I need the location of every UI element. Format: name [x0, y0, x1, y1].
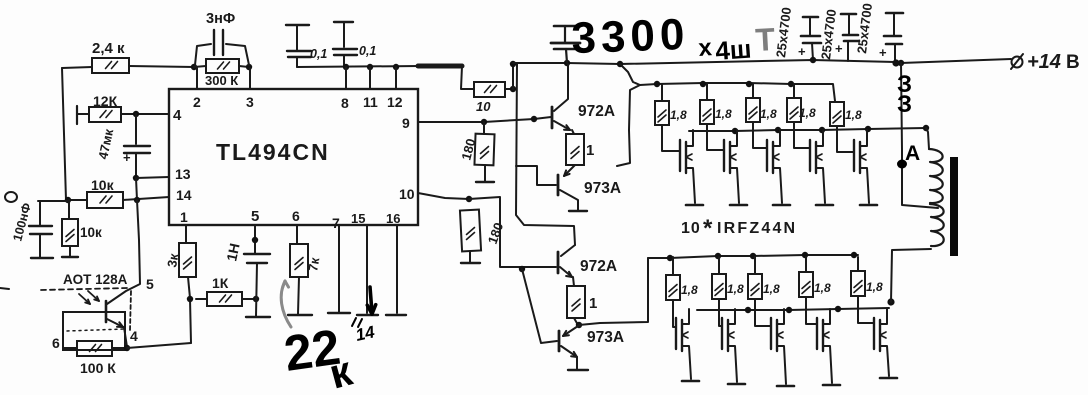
svg-text:IRFZ44N: IRFZ44N [717, 220, 797, 237]
svg-text:10: 10 [476, 99, 491, 114]
svg-text:1: 1 [180, 209, 188, 225]
svg-text:1,8: 1,8 [727, 282, 744, 296]
svg-text:8: 8 [341, 95, 349, 111]
svg-text:13: 13 [175, 166, 191, 182]
svg-text:972А: 972А [578, 103, 615, 120]
svg-text:А: А [905, 142, 920, 165]
svg-text:1,8: 1,8 [763, 282, 780, 296]
svg-text:100 К: 100 К [80, 360, 116, 376]
svg-text:В: В [1066, 52, 1080, 73]
svg-text:25х4700: 25х4700 [773, 6, 794, 58]
svg-text:1,8: 1,8 [670, 108, 687, 122]
svg-text:14: 14 [176, 187, 192, 203]
svg-text:1,8: 1,8 [866, 280, 883, 294]
svg-text:300 К: 300 К [205, 73, 238, 88]
svg-text:+: + [123, 150, 131, 165]
svg-text:25х4700: 25х4700 [854, 2, 875, 54]
svg-text:5: 5 [251, 208, 259, 225]
svg-text:1: 1 [586, 142, 594, 159]
svg-text:11: 11 [363, 94, 378, 110]
svg-text:1,8: 1,8 [681, 283, 698, 297]
svg-text:4ш: 4ш [714, 34, 752, 66]
svg-text:15: 15 [351, 211, 365, 226]
svg-text:х: х [698, 34, 714, 62]
svg-text:4: 4 [130, 328, 138, 344]
svg-text:1,8: 1,8 [760, 107, 777, 121]
svg-text:*: * [703, 215, 713, 242]
svg-text:АОТ 128А: АОТ 128А [63, 272, 128, 287]
svg-text:973А: 973А [587, 329, 624, 346]
svg-text:+14: +14 [1027, 51, 1061, 73]
svg-text:3: 3 [246, 94, 254, 110]
svg-text:5: 5 [146, 276, 154, 292]
svg-text:0,1: 0,1 [359, 44, 376, 58]
svg-text:100нФ: 100нФ [10, 201, 34, 243]
svg-text:6: 6 [52, 335, 60, 351]
svg-text:9: 9 [402, 115, 410, 131]
svg-text:10к: 10к [91, 177, 115, 193]
svg-text:TL494CN: TL494CN [216, 139, 330, 165]
svg-text:12: 12 [387, 94, 403, 110]
svg-text:14: 14 [354, 322, 377, 345]
svg-text:0,1: 0,1 [310, 47, 327, 61]
svg-text:180: 180 [485, 221, 507, 247]
svg-text:47мк: 47мк [95, 127, 116, 161]
svg-text:7к: 7к [305, 256, 322, 273]
svg-text:1: 1 [589, 295, 597, 312]
svg-text:1,8: 1,8 [799, 106, 816, 120]
svg-text:10: 10 [399, 186, 415, 202]
svg-text:16: 16 [386, 211, 400, 226]
svg-text:1,8: 1,8 [814, 281, 831, 295]
svg-text:+: + [879, 45, 887, 60]
svg-text:1,8: 1,8 [845, 108, 862, 122]
svg-text:3300: 3300 [571, 10, 691, 63]
svg-text:12К: 12К [93, 93, 118, 109]
svg-text:к: к [324, 347, 357, 395]
svg-text:+: + [798, 44, 806, 59]
svg-text:1К: 1К [212, 275, 229, 291]
svg-text:973А: 973А [584, 180, 621, 197]
svg-text:1,8: 1,8 [715, 107, 732, 121]
svg-text:к: к [117, 40, 125, 57]
svg-text:1Н: 1Н [223, 242, 242, 263]
svg-text:З: З [897, 91, 912, 118]
svg-text:4: 4 [173, 107, 182, 124]
svg-text:972А: 972А [580, 258, 617, 275]
svg-text:2: 2 [193, 94, 201, 110]
svg-text:2,4: 2,4 [92, 40, 114, 57]
svg-text:3нФ: 3нФ [206, 11, 235, 27]
svg-text:+: + [835, 41, 843, 56]
svg-text:10к: 10к [80, 225, 102, 240]
svg-text:10: 10 [681, 220, 701, 237]
svg-text:6: 6 [292, 208, 300, 224]
